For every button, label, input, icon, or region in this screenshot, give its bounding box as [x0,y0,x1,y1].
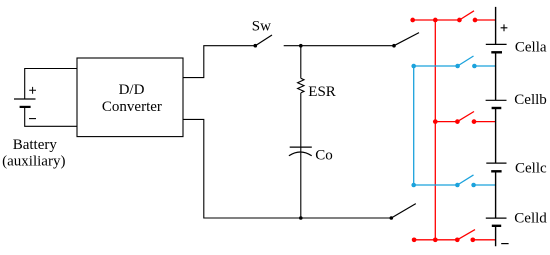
svg-text:Cellb: Cellb [514,92,547,108]
wire: resistor to capacitor to bottom rail [300,93,302,218]
svg-text:ESR: ESR [308,84,336,100]
cell Celld long plate [486,217,507,219]
red mid switch blade [457,112,474,122]
svg-text:(auxiliary): (auxiliary) [2,154,65,170]
red dot mid switch terminal [472,119,477,124]
cell Cella short plate [491,51,502,53]
red row bottom wire right [473,239,496,241]
red top switch blade [459,11,474,20]
cell Cellb long plate [486,99,507,101]
top black switch blade [394,33,419,46]
battery B1 minus sign [29,118,36,120]
cyan row1 switch blade [458,56,474,66]
red dot top row end [410,18,415,23]
red dot bottom row end [412,237,417,242]
cyan dot row1 bus end [411,64,416,69]
battery B1 plus sign [29,87,36,94]
cyan dot row1 switch terminal [472,64,477,69]
svg-text:Battery: Battery [13,137,58,153]
red row top wire left [413,19,460,21]
battery B1 short plate (-) [20,106,31,108]
cyan row1 wire left [414,65,458,67]
cyan dot row2 bus end [411,183,416,188]
cyan dot row1 switch pivot [455,64,460,69]
svg-text:Converter: Converter [102,99,162,115]
bottom black switch pivot dot [390,216,394,220]
cyan dot row2 switch terminal [471,183,476,188]
red dot bottom switch terminal [470,237,475,242]
red dot top switch terminal [473,18,478,23]
bottom black switch blade [391,204,416,218]
switch Sw blade [255,35,272,46]
stack plus sign [501,24,508,31]
red dot bottom bus junction [433,237,438,242]
wire: battery bottom lead to converter [25,107,77,126]
cyan row1 wire right [474,65,495,67]
red bus vertical wire [434,20,436,240]
capacitor Co top plate [290,146,312,148]
red dot bottom switch pivot [455,237,460,242]
junction dot: ESR branch top [299,44,303,48]
svg-text:Celld: Celld [514,210,547,226]
cyan row2 wire right [474,184,496,186]
svg-text:Co: Co [315,147,333,163]
cell Cellc long plate [486,162,506,164]
cyan row2 wire left [414,184,458,186]
svg-text:D/D: D/D [119,82,145,98]
cell Celld short plate [492,225,501,227]
cyan bus vertical wire [413,66,415,185]
red dot mid switch pivot [455,119,460,124]
wire: converter top output to switch Sw [183,46,255,78]
red row mid wire left [435,121,457,123]
cyan row2 switch blade [457,175,473,185]
stack minus sign [501,243,508,245]
cell stack vertical wire segments [495,7,497,246]
red dot top row bus junction [433,18,438,23]
capacitor Co curved bottom plate [289,152,312,156]
resistor ESR zigzag [298,78,304,93]
wire: Sw to top black switch [284,45,394,47]
cyan dot row2 switch pivot [455,183,460,188]
top black switch pivot dot [392,44,396,48]
red dot top switch pivot [457,18,462,23]
wire: converter bottom output to bottom black switch [183,119,391,218]
cell Cellb short plate [492,107,502,109]
red bottom switch blade [457,230,475,240]
battery B1 long plate (+) [14,98,36,100]
svg-text:Cella: Cella [515,40,547,56]
red dot mid bus junction [433,119,438,124]
cell Cellc short plate [491,170,501,172]
red row bottom wire left [414,239,457,241]
red row top wire right [475,19,496,21]
red row mid wire right [474,121,496,123]
svg-text:Sw: Sw [252,18,271,34]
junction dot: ESR branch bottom [299,216,303,220]
D/D converter U1 box [77,58,183,137]
battery B1 (auxiliary) wire: top lead to converter [25,69,77,100]
switch Sw pivot dot [254,44,258,48]
cell Cella long plate [486,43,507,45]
svg-text:Cellc: Cellc [515,161,547,177]
wire: ESR branch vertical top [300,46,302,79]
